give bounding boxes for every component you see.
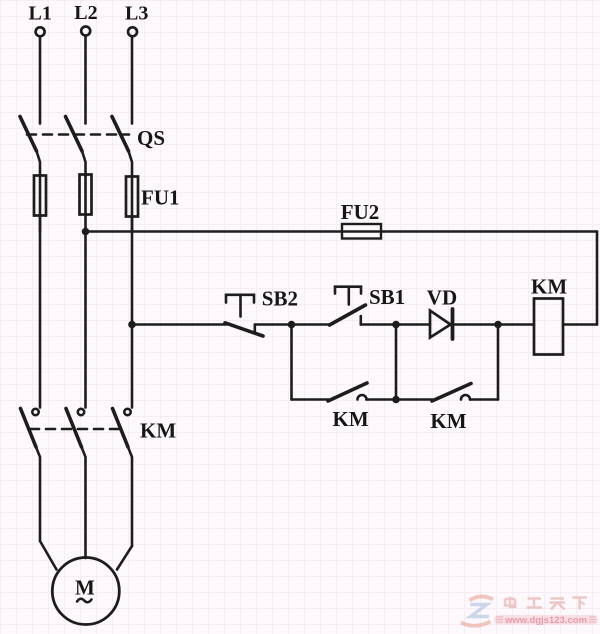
wire motor lead 3: [117, 546, 132, 570]
watermark band tick left: [496, 617, 503, 622]
fuse FU1 pole2: [80, 175, 92, 215]
wire L1 phase down: [39, 216, 42, 408]
button SB1 blade (NO): [330, 305, 366, 325]
svg-text:QS: QS: [137, 126, 165, 150]
svg-text:L1: L1: [29, 3, 52, 25]
watermark logo swoosh bottom: [461, 622, 491, 626]
svg-text:KM: KM: [140, 419, 176, 443]
QS mechanical link (dashed): [27, 133, 129, 136]
wire through FU2: [344, 230, 379, 233]
watermark logo Z: [471, 605, 490, 617]
wire through fuse 2: [84, 175, 87, 232]
button SB1 actuator: [335, 287, 361, 305]
wire through fuse 1: [39, 176, 42, 232]
svg-text:KM: KM: [531, 275, 567, 299]
wire aux 1 to node: [367, 398, 397, 401]
svg-text:L2: L2: [74, 2, 97, 24]
wire branch down from SB2/SB1 node: [290, 325, 293, 400]
wire right edge down to coil return: [596, 232, 599, 325]
node junction L3 / control tap: [128, 321, 136, 329]
wire motor lead 1: [40, 541, 57, 570]
wire aux rail 2: [396, 398, 433, 401]
wire control feed top rail: [86, 230, 598, 233]
wire SB1 to VD: [361, 323, 430, 326]
wire branch down from VD/KM node: [497, 325, 500, 400]
watermark char gong: [527, 599, 543, 608]
wire L1 to QS: [39, 37, 42, 124]
watermark char xia: [573, 598, 588, 610]
wire branch down from SB1/VD node: [395, 325, 398, 400]
contact KM aux 2 fixed hook: [461, 395, 470, 400]
switch QS pole 2 blade: [66, 117, 83, 152]
wire L3 phase down: [131, 217, 134, 408]
contact KM aux 2 blade: [432, 384, 471, 402]
diode VD triangle: [430, 311, 451, 338]
fuse FU1 pole3: [126, 177, 138, 217]
contact KM main 3 blade: [113, 409, 129, 448]
fuse FU1 pole1: [34, 176, 46, 216]
node junction aux rails: [392, 396, 400, 404]
wire QS pole3 to FU1: [129, 151, 133, 176]
watermark char dian: [505, 597, 517, 608]
svg-text:SB1: SB1: [369, 285, 405, 309]
svg-text:L3: L3: [125, 3, 148, 25]
wire aux rail 1: [292, 398, 330, 401]
contact KM aux 1 blade: [328, 383, 367, 401]
watermark band tick right: [589, 617, 596, 622]
wire QS pole1 to FU1: [37, 151, 41, 176]
terminal L1: [36, 27, 45, 36]
wire KM main 2 down: [82, 447, 86, 558]
contact KM aux 1 fixed hook: [358, 395, 367, 400]
button SB2 blade (NC): [225, 323, 263, 336]
watermark url band: [494, 615, 598, 625]
wire VD to coil: [453, 323, 535, 326]
svg-text:SB2: SB2: [262, 287, 298, 311]
svg-text:KM: KM: [333, 407, 369, 431]
switch QS pole 1 blade: [20, 117, 37, 152]
motor M circle: [52, 558, 119, 625]
wire QS pole2 to FU1: [82, 151, 86, 176]
node junction SB1/VD branch: [392, 321, 400, 329]
button SB1 fixed contact tick: [359, 316, 362, 325]
button SB2 fixed contact tick: [254, 325, 257, 332]
svg-text:FU1: FU1: [141, 186, 180, 210]
watermark logo swoosh top: [470, 596, 494, 600]
wire SB2 to SB1: [255, 323, 330, 326]
svg-text:www.dgjs123.com: www.dgjs123.com: [504, 615, 587, 626]
terminal L2: [81, 27, 90, 36]
wire coil to right edge: [563, 323, 597, 326]
contact KM main 2 fixed circle: [78, 409, 84, 415]
button SB2 actuator: [226, 295, 254, 317]
coil KM: [534, 299, 563, 355]
wire L2 phase down: [84, 232, 87, 408]
diode VD cathode bar: [451, 309, 455, 339]
wire through fuse 3: [131, 177, 134, 232]
node junction SB2/SB1 branch: [288, 321, 296, 329]
motor AC tilde: [77, 599, 92, 603]
switch QS pole 3 blade: [112, 117, 129, 152]
watermark char tian: [550, 599, 566, 610]
KM main mechanical link (dashed): [30, 428, 122, 431]
terminal L3: [128, 27, 137, 36]
svg-text:KM: KM: [430, 409, 466, 433]
wire control line to SB2: [132, 323, 227, 326]
svg-text:FU2: FU2: [341, 200, 380, 224]
contact KM main 1 fixed circle: [32, 409, 38, 415]
svg-text:VD: VD: [427, 286, 457, 310]
contact KM main 1 blade: [21, 409, 37, 448]
node junction L2 / control feed: [82, 228, 90, 236]
contact KM main 2 blade: [66, 409, 82, 448]
wire L3 to QS: [131, 37, 134, 124]
wire aux 2 to branch: [470, 398, 498, 401]
svg-text:M: M: [75, 576, 95, 600]
wire KM main 1 down: [36, 447, 40, 541]
wire KM main 3 down: [128, 447, 132, 546]
node junction VD/KM branch: [494, 321, 502, 329]
wire L2 to QS: [84, 36, 87, 124]
contact KM main 3 fixed circle: [124, 409, 130, 415]
fuse FU2: [342, 224, 381, 239]
